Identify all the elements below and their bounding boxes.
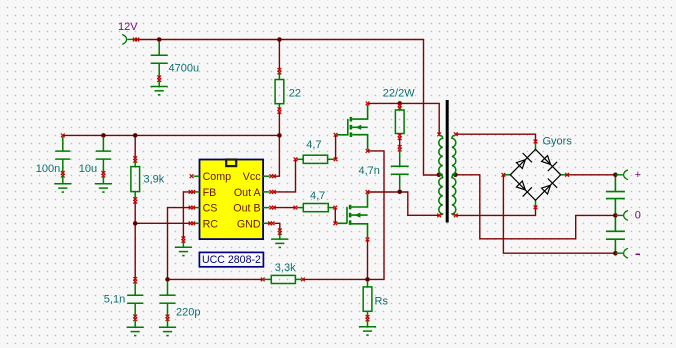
bridge rectifier D1 stubs: [504, 142, 566, 206]
ground IC GND net: [271, 228, 288, 247]
wire bottom right segment: [303, 278, 367, 280]
capacitor C3 10u: [96, 137, 111, 184]
pin GND: [237, 218, 275, 230]
svg-text:Rs: Rs: [375, 295, 389, 307]
wire bottom left segment: [168, 278, 263, 280]
svg-text:3,9k: 3,9k: [144, 174, 165, 186]
svg-text:10u: 10u: [79, 163, 97, 175]
pin Comp: [190, 171, 231, 183]
wire RC to junction: [135, 222, 190, 224]
junction secondary center tap: [453, 173, 458, 178]
svg-text:FB: FB: [203, 187, 217, 199]
junction at 3,9k top: [133, 133, 138, 138]
junction at 22 top: [277, 37, 282, 42]
resistor R5 22: [275, 68, 284, 114]
capacitor C6 4,7n: [391, 145, 409, 190]
wire OutB to R3: [275, 207, 294, 209]
resistor R1 3,9k: [131, 156, 140, 203]
pin Vcc: [243, 171, 276, 183]
svg-text:GND: GND: [237, 218, 261, 230]
pin RC: [189, 218, 219, 230]
svg-text:+: +: [635, 169, 641, 181]
transistor Q2 MOSFET lower: [333, 190, 369, 241]
ground under C2: [54, 184, 71, 192]
resistor R3 4,7 lower: [294, 204, 338, 212]
wire Q1 drain node: [368, 103, 440, 133]
connector plus output: [615, 170, 628, 180]
wire R3 to Q2 gate: [334, 209, 336, 222]
resistor R6 3,3k: [261, 275, 305, 283]
wire GND pin to ground: [275, 223, 280, 230]
svg-text:CS: CS: [203, 203, 218, 215]
junction zero output: [613, 213, 618, 218]
bridge rectifier D1 terminal markers: [502, 140, 569, 210]
wire node to primary bottom: [400, 192, 439, 215]
resistor R7 Rs: [363, 282, 372, 327]
connector minus output: [615, 248, 628, 258]
svg-text:100n: 100n: [36, 163, 60, 175]
svg-text:Out B: Out B: [233, 203, 260, 215]
junction at snubber top: [397, 101, 402, 106]
svg-text:UCC 2808-2: UCC 2808-2: [202, 254, 261, 266]
resistor R4 22/2W: [395, 104, 404, 140]
svg-text:Gyors: Gyors: [543, 135, 573, 147]
wire CS down: [168, 208, 191, 280]
svg-text:3,3k: 3,3k: [275, 262, 296, 274]
diode D1d bottom-right: [540, 178, 557, 195]
svg-text:4,7: 4,7: [306, 139, 321, 151]
resistor R2 4,7 upper: [294, 155, 338, 163]
pin Out A: [234, 187, 276, 199]
svg-text:220p: 220p: [176, 306, 200, 318]
wire 3,9k top feed: [134, 135, 136, 158]
wire Q1 source return: [368, 151, 385, 280]
diode D1a top-left: [515, 153, 532, 170]
capacitor C4 5,1n: [127, 277, 143, 327]
pin FB: [189, 187, 217, 199]
diode D1b top-right: [540, 154, 557, 171]
connector 12V input: [122, 35, 139, 45]
ground under Rs: [359, 327, 376, 335]
ground under C5: [159, 327, 176, 335]
wire Vcc vertical lower: [275, 112, 279, 176]
junction at 10u: [101, 133, 106, 138]
wire bridge left to minus out: [503, 175, 615, 253]
svg-text:4700u: 4700u: [169, 62, 200, 74]
wire bridge right to plus out: [567, 174, 615, 176]
capacitor C7 output upper: [606, 177, 625, 213]
designator box UCC 2808-2: [199, 252, 263, 266]
transistor Q1 MOSFET upper: [334, 102, 370, 153]
junction at 22 bottom: [277, 133, 282, 138]
capacitor C8 output lower: [606, 217, 625, 251]
wire: [158, 80, 160, 86]
junction at 12V cap: [157, 37, 162, 42]
svg-text:0: 0: [635, 210, 641, 222]
capacitor C2 100n: [55, 134, 70, 184]
junction at RC node: [133, 221, 138, 226]
pin CS: [189, 203, 218, 215]
wire FB to ground: [183, 192, 190, 238]
transformer T1 primary winding: [437, 133, 442, 218]
pin Out B: [233, 203, 276, 215]
svg-text:4,7n: 4,7n: [359, 165, 380, 177]
svg-text:22: 22: [289, 88, 301, 100]
wire secondary center to 0 out: [455, 175, 615, 239]
svg-text:Out A: Out A: [234, 187, 262, 199]
ground under C1: [151, 87, 168, 95]
wire left rail to caps: [63, 134, 280, 136]
svg-text:5,1n: 5,1n: [104, 294, 125, 306]
capacitor C1 4700u: [151, 41, 168, 77]
capacitor C5 220p: [160, 281, 176, 327]
junction plus output: [613, 173, 618, 178]
svg-text:RC: RC: [203, 218, 219, 230]
wire secondary top to bridge: [456, 134, 535, 141]
svg-text:22/2W: 22/2W: [383, 88, 415, 100]
wire secondary bottom to bridge: [456, 208, 535, 216]
svg-text:Comp: Comp: [203, 171, 232, 183]
transformer T1 secondary winding: [452, 132, 458, 217]
junction at Rs node: [365, 277, 370, 282]
bridge rectifier D1 diamond: [510, 149, 560, 200]
svg-text:Vcc: Vcc: [243, 171, 261, 183]
wire Q2 drain node: [368, 191, 400, 193]
wire Vcc vertical upper: [278, 40, 280, 71]
wire OutA to R2: [275, 161, 296, 192]
svg-text:4,7: 4,7: [310, 190, 325, 202]
ground under C4: [127, 327, 144, 335]
junction at 220p node: [165, 277, 170, 282]
junction minus output: [613, 251, 618, 256]
diode D1c bottom-left: [515, 179, 532, 196]
label minus: [636, 253, 641, 255]
junction primary center tap: [437, 173, 442, 178]
wire R2 to Q1 gate: [335, 135, 337, 158]
connector zero output: [615, 211, 628, 221]
ground under C3: [95, 184, 112, 192]
op-amp U1 UCC2808 body: [200, 160, 264, 240]
wire 3,9k bottom to 5,1n: [134, 202, 136, 279]
junction at snubber bottom: [397, 190, 402, 195]
ground FB net: [175, 236, 192, 255]
wire Q2 source down: [367, 240, 369, 280]
svg-text:12V: 12V: [118, 21, 138, 33]
transformer T1 core: [446, 100, 449, 223]
wire 12V top rail: [134, 40, 439, 176]
wire R4 to C6 link: [399, 138, 401, 147]
